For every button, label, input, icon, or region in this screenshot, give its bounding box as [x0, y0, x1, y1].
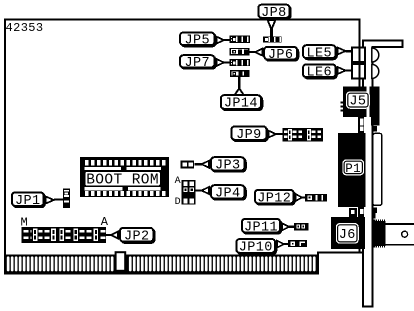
svg-text:J6: J6: [339, 228, 356, 243]
svg-text:D: D: [175, 197, 181, 208]
svg-text:P1: P1: [345, 162, 361, 176]
svg-text:JP7: JP7: [184, 56, 210, 71]
svg-text:JP4: JP4: [215, 187, 241, 202]
svg-text:JP10: JP10: [239, 241, 273, 256]
svg-text:JP5: JP5: [184, 34, 210, 49]
svg-text:JP12: JP12: [257, 191, 291, 206]
svg-text:BOOT ROM: BOOT ROM: [86, 172, 159, 188]
svg-text:JP9: JP9: [236, 128, 262, 143]
svg-text:A: A: [101, 215, 109, 229]
svg-text:JP8: JP8: [261, 6, 287, 21]
svg-text:42353: 42353: [6, 21, 44, 35]
svg-text:A: A: [175, 176, 181, 187]
svg-text:JP2: JP2: [124, 229, 150, 244]
svg-text:LE5: LE5: [307, 46, 333, 61]
svg-text:M: M: [21, 216, 29, 230]
svg-text:JP14: JP14: [224, 97, 258, 112]
svg-text:JP1: JP1: [15, 194, 41, 209]
svg-text:JP3: JP3: [215, 159, 241, 174]
svg-text:LE6: LE6: [307, 66, 333, 81]
svg-text:JP6: JP6: [268, 48, 294, 63]
svg-text:JP11: JP11: [244, 220, 278, 235]
svg-text:J5: J5: [349, 95, 366, 110]
